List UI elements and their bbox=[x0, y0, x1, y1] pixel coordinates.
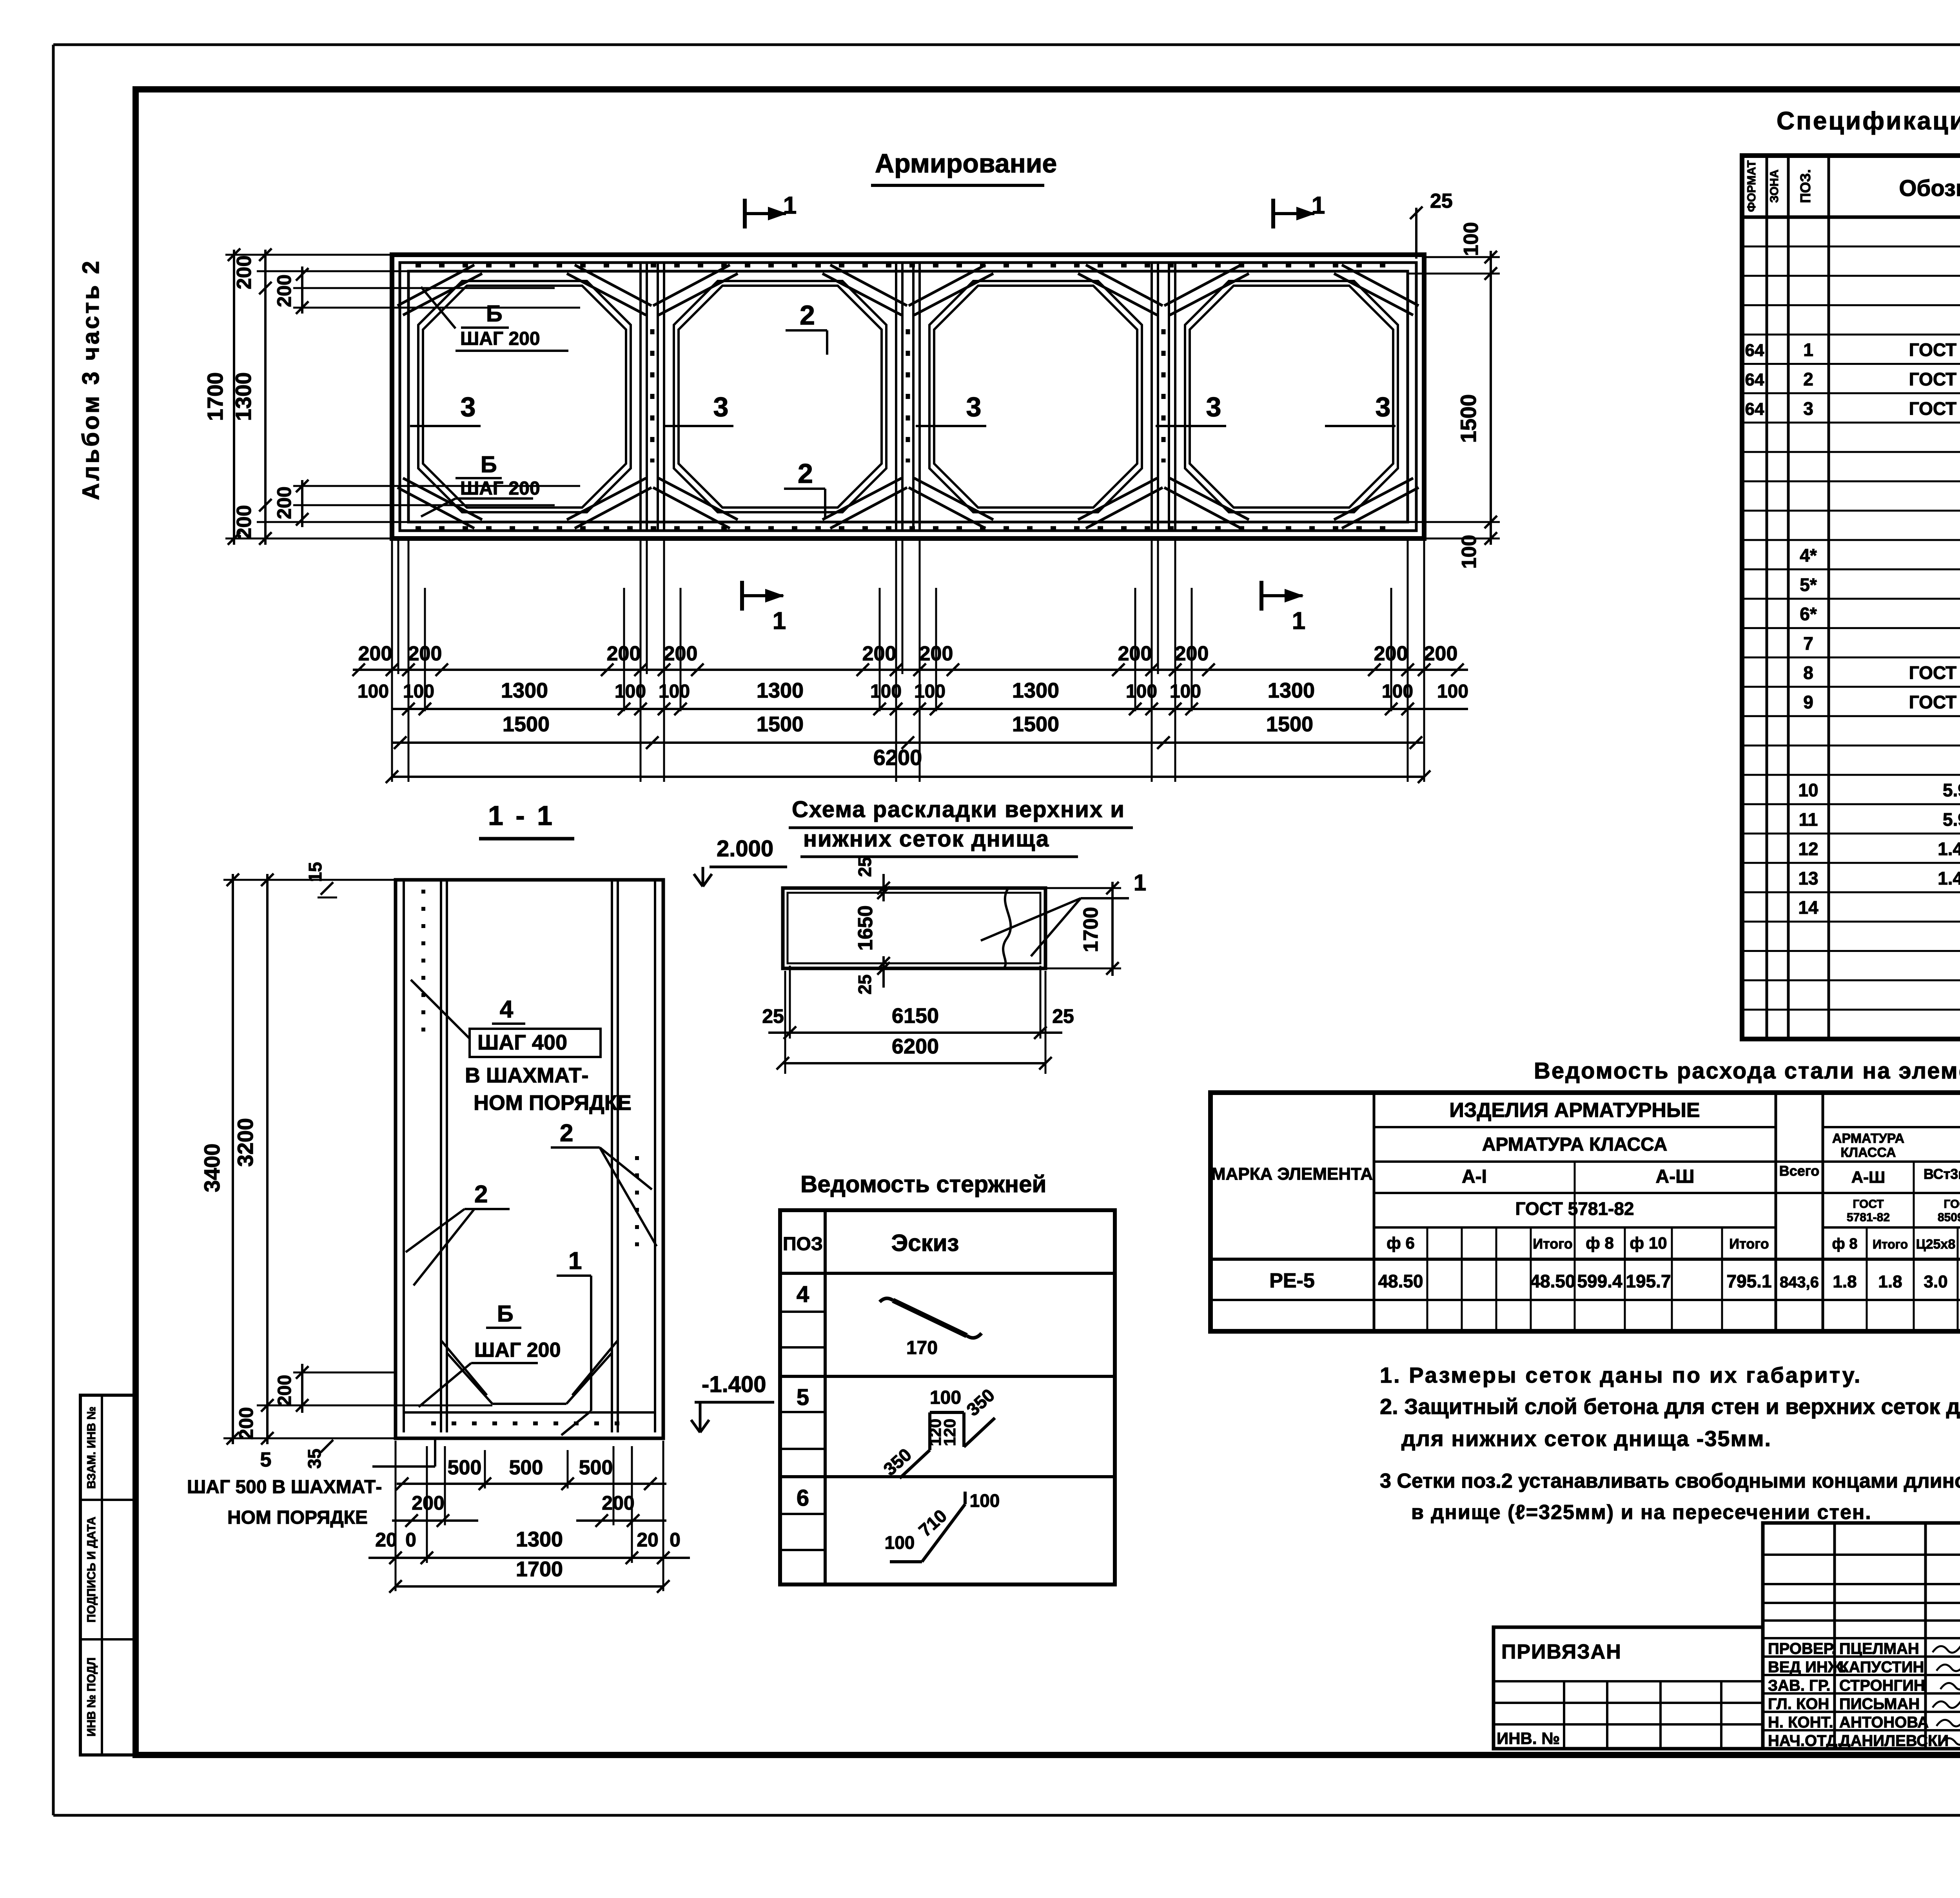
svg-text:100: 100 bbox=[659, 681, 690, 702]
svg-text:А-Ш: А-Ш bbox=[1851, 1168, 1886, 1186]
svg-text:ПРОВЕР.: ПРОВЕР. bbox=[1768, 1640, 1836, 1657]
svg-text:1300: 1300 bbox=[1012, 679, 1059, 702]
svg-text:7: 7 bbox=[1803, 633, 1813, 654]
svg-text:3: 3 bbox=[1803, 398, 1813, 419]
svg-text:1500: 1500 bbox=[757, 712, 804, 736]
svg-text:Н. КОНТ.: Н. КОНТ. bbox=[1768, 1714, 1833, 1731]
svg-text:Итого: Итого bbox=[1873, 1237, 1908, 1251]
svg-text:200: 200 bbox=[235, 1407, 257, 1439]
svg-text:2. Защитный слой бетона для ст: 2. Защитный слой бетона для стен и верхн… bbox=[1380, 1394, 1960, 1419]
svg-text:ВЗАМ. ИНВ №: ВЗАМ. ИНВ № bbox=[85, 1407, 98, 1489]
svg-text:ЗОНА: ЗОНА bbox=[1768, 169, 1781, 203]
svg-text:5781-82: 5781-82 bbox=[1847, 1211, 1890, 1224]
svg-text:1300: 1300 bbox=[1268, 679, 1315, 702]
svg-text:200: 200 bbox=[274, 1375, 295, 1406]
svg-text:200: 200 bbox=[602, 1492, 634, 1514]
svg-text:КАПУСТИН: КАПУСТИН bbox=[1839, 1659, 1924, 1676]
svg-text:Б: Б bbox=[486, 301, 503, 326]
svg-text:1300: 1300 bbox=[516, 1528, 563, 1551]
svg-text:НОМ ПОРЯДКЕ: НОМ ПОРЯДКЕ bbox=[474, 1091, 632, 1115]
svg-text:20: 20 bbox=[375, 1529, 397, 1551]
svg-text:200: 200 bbox=[607, 642, 641, 665]
svg-text:1: 1 bbox=[1134, 870, 1146, 896]
svg-text:10: 10 bbox=[1798, 780, 1818, 800]
svg-text:КЛАССА: КЛАССА bbox=[1840, 1145, 1896, 1160]
svg-text:200: 200 bbox=[358, 642, 392, 665]
svg-text:25: 25 bbox=[855, 974, 875, 994]
svg-text:РЕ-5: РЕ-5 bbox=[1269, 1269, 1315, 1292]
svg-text:1500: 1500 bbox=[1012, 712, 1059, 736]
svg-text:200: 200 bbox=[1374, 642, 1408, 665]
svg-text:100: 100 bbox=[885, 1532, 915, 1553]
svg-text:3200: 3200 bbox=[233, 1118, 258, 1167]
svg-text:11: 11 bbox=[1799, 809, 1818, 830]
svg-text:3.0: 3.0 bbox=[1924, 1272, 1947, 1291]
svg-text:В ШАХМАТ-: В ШАХМАТ- bbox=[465, 1064, 589, 1087]
svg-text:5.900-2: 5.900-2 bbox=[1943, 809, 1960, 830]
svg-text:4*: 4* bbox=[1800, 545, 1817, 566]
svg-text:ГОСТ 5781-82: ГОСТ 5781-82 bbox=[1515, 1198, 1634, 1219]
svg-text:ВЕД ИНЖ.: ВЕД ИНЖ. bbox=[1768, 1659, 1846, 1676]
svg-text:2: 2 bbox=[474, 1181, 488, 1208]
svg-text:100: 100 bbox=[930, 1387, 961, 1408]
svg-text:3: 3 bbox=[1206, 392, 1221, 422]
svg-text:200: 200 bbox=[862, 642, 897, 665]
svg-text:Схема раскладки верхних и: Схема раскладки верхних и bbox=[792, 797, 1125, 822]
svg-text:13: 13 bbox=[1798, 868, 1818, 888]
svg-text:ПОЗ: ПОЗ bbox=[783, 1234, 823, 1254]
svg-text:1: 1 bbox=[1292, 607, 1305, 634]
svg-text:ШАГ 200: ШАГ 200 bbox=[460, 328, 540, 349]
svg-text:3 Сетки поз.2 устанавливать св: 3 Сетки поз.2 устанавливать свободными к… bbox=[1380, 1470, 1960, 1492]
svg-text:ШАГ 400: ШАГ 400 bbox=[477, 1031, 567, 1054]
svg-text:195.7: 195.7 bbox=[1626, 1271, 1671, 1291]
svg-text:200: 200 bbox=[273, 486, 295, 519]
svg-text:200: 200 bbox=[1175, 642, 1209, 665]
svg-text:ПОЗ.: ПОЗ. bbox=[1797, 169, 1813, 203]
svg-text:4: 4 bbox=[797, 1282, 809, 1307]
svg-text:100: 100 bbox=[615, 681, 646, 702]
svg-text:500: 500 bbox=[448, 1456, 482, 1479]
svg-text:100: 100 bbox=[1126, 681, 1157, 702]
svg-text:25: 25 bbox=[762, 1005, 784, 1027]
svg-text:1.8: 1.8 bbox=[1833, 1272, 1857, 1291]
svg-text:ГОСТ: ГОСТ bbox=[1853, 1198, 1884, 1211]
svg-text:ф 8: ф 8 bbox=[1832, 1236, 1858, 1252]
svg-text:ЗАВ. ГР.: ЗАВ. ГР. bbox=[1768, 1677, 1831, 1694]
svg-text:170: 170 bbox=[906, 1338, 938, 1358]
svg-text:Эскиз: Эскиз bbox=[891, 1230, 959, 1256]
svg-text:25: 25 bbox=[1052, 1005, 1074, 1027]
svg-text:12: 12 bbox=[1798, 839, 1818, 859]
svg-text:Спецификация емкости РЕ5: Спецификация емкости РЕ5 bbox=[1777, 107, 1960, 135]
svg-text:НОМ ПОРЯДКЕ: НОМ ПОРЯДКЕ bbox=[227, 1507, 368, 1528]
svg-text:Итого: Итого bbox=[1729, 1236, 1769, 1252]
svg-text:1. Размеры сеток даны по их га: 1. Размеры сеток даны по их габариту. bbox=[1380, 1363, 1862, 1387]
svg-text:2: 2 bbox=[560, 1120, 573, 1147]
svg-text:ШАГ 500 В ШАХМАТ-: ШАГ 500 В ШАХМАТ- bbox=[187, 1477, 382, 1497]
svg-text:ф 10: ф 10 bbox=[1630, 1234, 1667, 1252]
svg-text:8: 8 bbox=[1803, 663, 1813, 683]
svg-text:14: 14 bbox=[1798, 897, 1818, 918]
svg-text:1: 1 bbox=[773, 607, 786, 634]
svg-text:20: 20 bbox=[637, 1529, 659, 1551]
svg-text:5: 5 bbox=[797, 1385, 809, 1410]
svg-text:МАРКА ЭЛЕМЕНТА: МАРКА ЭЛЕМЕНТА bbox=[1211, 1164, 1373, 1184]
svg-text:3: 3 bbox=[1376, 392, 1391, 422]
svg-text:Б: Б bbox=[481, 452, 497, 477]
svg-text:100: 100 bbox=[1170, 681, 1201, 702]
svg-text:9: 9 bbox=[1803, 692, 1813, 712]
svg-text:5.900-2: 5.900-2 bbox=[1943, 780, 1960, 800]
svg-text:100: 100 bbox=[358, 681, 389, 702]
svg-text:200: 200 bbox=[1424, 642, 1458, 665]
svg-text:для нижних сеток днища -35мм.: для нижних сеток днища -35мм. bbox=[1401, 1426, 1771, 1451]
svg-text:ДАНИЛЕВСКИ: ДАНИЛЕВСКИ bbox=[1839, 1732, 1949, 1749]
svg-text:200: 200 bbox=[919, 642, 953, 665]
svg-text:1700: 1700 bbox=[203, 372, 227, 421]
svg-text:2: 2 bbox=[798, 458, 813, 489]
svg-text:100: 100 bbox=[403, 681, 434, 702]
svg-text:100: 100 bbox=[1458, 535, 1481, 569]
svg-text:1: 1 bbox=[1312, 192, 1325, 219]
svg-text:АНТОНОВА: АНТОНОВА bbox=[1839, 1714, 1929, 1731]
svg-text:1: 1 bbox=[568, 1247, 582, 1274]
svg-text:ПОДПИСЬ И ДАТА: ПОДПИСЬ И ДАТА bbox=[85, 1517, 98, 1622]
svg-text:НАЧ.ОТД.: НАЧ.ОТД. bbox=[1768, 1732, 1842, 1749]
svg-text:1.400-15: 1.400-15 bbox=[1938, 839, 1960, 859]
svg-text:200: 200 bbox=[408, 642, 442, 665]
svg-text:1650: 1650 bbox=[854, 905, 877, 951]
svg-text:795.1: 795.1 bbox=[1726, 1271, 1771, 1291]
svg-text:ПЦЕЛМАН: ПЦЕЛМАН bbox=[1839, 1640, 1919, 1657]
svg-text:1 - 1: 1 - 1 bbox=[488, 800, 555, 831]
svg-text:1.8: 1.8 bbox=[1878, 1272, 1902, 1291]
svg-text:ПРИВЯЗАН: ПРИВЯЗАН bbox=[1501, 1641, 1622, 1663]
svg-text:ГОСТ 23239-85: ГОСТ 23239-85 bbox=[1909, 340, 1960, 360]
svg-text:500: 500 bbox=[509, 1456, 543, 1479]
svg-text:А-I: А-I bbox=[1462, 1166, 1487, 1187]
svg-text:120: 120 bbox=[940, 1419, 959, 1446]
svg-text:Б: Б bbox=[497, 1301, 514, 1327]
svg-text:ВСт3пс6-1: ВСт3пс6-1 bbox=[1924, 1166, 1960, 1182]
svg-text:3: 3 bbox=[713, 392, 729, 422]
svg-text:200: 200 bbox=[412, 1492, 444, 1514]
svg-text:АРМАТУРА КЛАССА: АРМАТУРА КЛАССА bbox=[1482, 1134, 1668, 1155]
svg-text:Ведомость расхода стали на: Ведомость расхода стали на элемент, кг bbox=[1534, 1058, 1960, 1084]
svg-text:ГОСТ 18599-83: ГОСТ 18599-83 bbox=[1909, 663, 1960, 683]
svg-text:1500: 1500 bbox=[1456, 394, 1481, 443]
svg-text:ф 8: ф 8 bbox=[1586, 1234, 1614, 1252]
svg-text:АРМАТУРА: АРМАТУРА bbox=[1832, 1131, 1904, 1146]
svg-text:843,6: 843,6 bbox=[1780, 1274, 1819, 1291]
svg-text:25: 25 bbox=[1430, 190, 1453, 212]
svg-text:1300: 1300 bbox=[757, 679, 804, 702]
svg-text:1300: 1300 bbox=[501, 679, 548, 702]
svg-text:1.400-15: 1.400-15 bbox=[1938, 868, 1960, 888]
svg-text:200: 200 bbox=[273, 274, 295, 307]
svg-text:1300: 1300 bbox=[231, 372, 256, 421]
svg-text:100: 100 bbox=[1382, 681, 1413, 702]
svg-text:100: 100 bbox=[914, 681, 946, 702]
svg-text:1: 1 bbox=[1803, 340, 1813, 360]
svg-text:Итого: Итого bbox=[1533, 1236, 1573, 1252]
svg-text:ф 6: ф 6 bbox=[1387, 1234, 1415, 1252]
svg-text:ШАГ 200: ШАГ 200 bbox=[460, 478, 540, 499]
svg-text:64: 64 bbox=[1745, 399, 1764, 419]
svg-text:200: 200 bbox=[233, 505, 256, 539]
svg-text:2: 2 bbox=[800, 300, 815, 330]
svg-text:599.4: 599.4 bbox=[1577, 1271, 1622, 1291]
svg-text:3: 3 bbox=[461, 392, 476, 422]
svg-text:ГОСТ: ГОСТ bbox=[1944, 1198, 1960, 1211]
svg-text:Ведомость стержней: Ведомость стержней bbox=[800, 1171, 1046, 1197]
svg-text:200: 200 bbox=[664, 642, 698, 665]
svg-text:5: 5 bbox=[260, 1448, 272, 1471]
svg-text:Обозначенце: Обозначенце bbox=[1899, 176, 1960, 201]
svg-text:нижних сеток днища: нижних сеток днища bbox=[803, 826, 1049, 852]
svg-text:Армирование: Армирование bbox=[875, 149, 1057, 178]
svg-text:А-Ш: А-Ш bbox=[1656, 1166, 1695, 1187]
svg-text:ИЗДЕЛИЯ АРМАТУРНЫЕ: ИЗДЕЛИЯ АРМАТУРНЫЕ bbox=[1449, 1099, 1700, 1122]
svg-text:-1.400: -1.400 bbox=[702, 1372, 766, 1397]
svg-text:Ц25х8: Ц25х8 bbox=[1916, 1237, 1955, 1252]
svg-text:48.50: 48.50 bbox=[1378, 1271, 1423, 1291]
svg-text:1700: 1700 bbox=[516, 1557, 563, 1581]
svg-text:в днище (ℓ=325мм) и на пересеч: в днище (ℓ=325мм) и на пересечении стен. bbox=[1411, 1501, 1872, 1524]
svg-text:200: 200 bbox=[1118, 642, 1152, 665]
svg-text:3400: 3400 bbox=[200, 1144, 224, 1193]
svg-text:100: 100 bbox=[1437, 681, 1468, 702]
svg-text:0: 0 bbox=[670, 1529, 681, 1551]
svg-text:Альбом 3 часть 2: Альбом 3 часть 2 bbox=[78, 259, 104, 500]
svg-text:200: 200 bbox=[233, 256, 256, 290]
svg-text:25: 25 bbox=[855, 857, 875, 877]
svg-text:6150: 6150 bbox=[892, 1004, 939, 1028]
svg-text:6200: 6200 bbox=[873, 745, 922, 770]
svg-text:48.50: 48.50 bbox=[1530, 1271, 1575, 1291]
svg-text:ПИСЬМАН: ПИСЬМАН bbox=[1839, 1695, 1920, 1713]
svg-text:2.000: 2.000 bbox=[717, 836, 773, 861]
svg-text:6*: 6* bbox=[1800, 604, 1817, 624]
svg-text:100: 100 bbox=[970, 1490, 1000, 1511]
svg-text:ФОРМАТ: ФОРМАТ bbox=[1745, 160, 1758, 212]
svg-text:0: 0 bbox=[405, 1529, 416, 1551]
svg-text:8509-86: 8509-86 bbox=[1938, 1211, 1960, 1224]
svg-text:3: 3 bbox=[966, 392, 982, 422]
svg-text:1500: 1500 bbox=[1266, 712, 1313, 736]
svg-text:ШАГ 200: ШАГ 200 bbox=[474, 1339, 561, 1361]
svg-text:ГОСТ 23219-85: ГОСТ 23219-85 bbox=[1909, 398, 1960, 419]
svg-text:6200: 6200 bbox=[892, 1035, 939, 1058]
svg-text:1500: 1500 bbox=[503, 712, 550, 736]
svg-text:ИНВ № ПОДЛ: ИНВ № ПОДЛ bbox=[85, 1657, 98, 1737]
svg-text:СТРОНГИН: СТРОНГИН bbox=[1839, 1677, 1925, 1694]
svg-text:Всего: Всего bbox=[1779, 1163, 1820, 1179]
svg-text:2: 2 bbox=[1803, 369, 1813, 390]
svg-text:ГОСТ 29279-85: ГОСТ 29279-85 bbox=[1909, 369, 1960, 390]
svg-text:64: 64 bbox=[1745, 341, 1764, 360]
svg-text:ГЛ. КОН: ГЛ. КОН bbox=[1768, 1695, 1829, 1713]
svg-text:100: 100 bbox=[870, 681, 902, 702]
svg-text:ИНВ. №: ИНВ. № bbox=[1497, 1729, 1560, 1748]
svg-text:500: 500 bbox=[579, 1456, 613, 1479]
svg-text:64: 64 bbox=[1745, 370, 1764, 390]
svg-text:ГОСТ 18599-83: ГОСТ 18599-83 bbox=[1909, 692, 1960, 712]
svg-text:6: 6 bbox=[797, 1485, 809, 1511]
svg-text:1700: 1700 bbox=[1080, 907, 1102, 952]
svg-text:100: 100 bbox=[1460, 222, 1483, 256]
svg-text:1: 1 bbox=[783, 192, 797, 219]
svg-text:5*: 5* bbox=[1800, 575, 1817, 595]
svg-text:4: 4 bbox=[500, 996, 514, 1023]
